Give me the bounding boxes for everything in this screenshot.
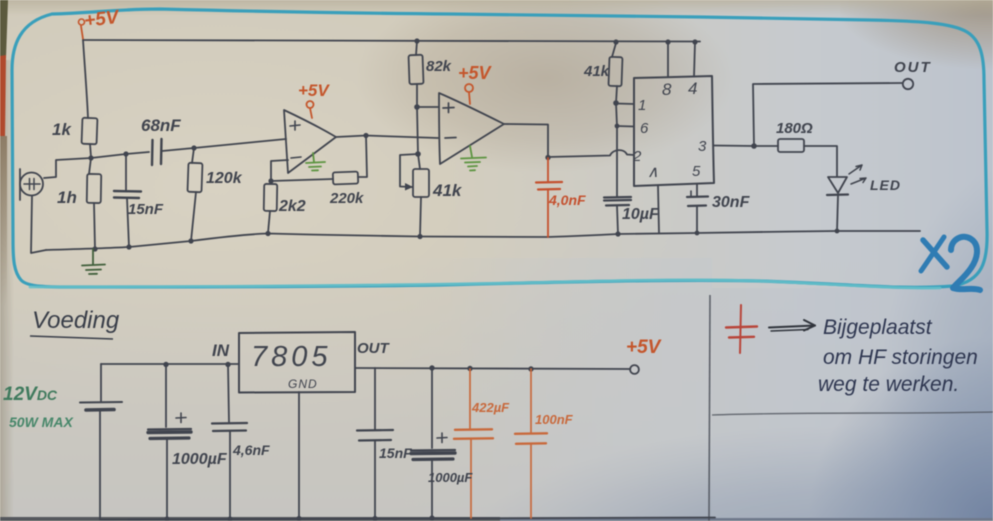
junction dot [265, 231, 270, 236]
+5V psu terminal circle [630, 365, 639, 374]
capacitor C11 100nF (orange) riser [530, 369, 532, 433]
ground symbol GND1 [82, 249, 105, 274]
svg-text:30nF: 30nF [712, 194, 751, 211]
wire C6 riser [165, 364, 167, 427]
wire + node to U2 [417, 106, 438, 108]
wire R2 to ground rail [94, 203, 95, 249]
wire node C to op-amp U1 + input [194, 139, 286, 148]
svg-text:+5V: +5V [83, 7, 121, 32]
svg-text:68nF: 68nF [141, 116, 181, 135]
svg-text:OUT: OUT [357, 340, 391, 357]
resistor R4 2k2 body [264, 184, 277, 211]
wire mic down to ground rail [31, 196, 46, 253]
junction dot U2 + node [414, 104, 420, 110]
svg-text:1h: 1h [57, 188, 77, 207]
ground rail (bottom of top circuit) [46, 231, 920, 250]
wire C2 to node C [162, 148, 194, 151]
svg-text:4: 4 [688, 79, 697, 98]
svg-text:220k: 220k [329, 190, 364, 207]
junction dot [615, 231, 620, 236]
svg-text:8: 8 [662, 80, 672, 99]
junction dot [695, 231, 700, 236]
regulator U4 7805 body [239, 332, 355, 393]
capacitor C10 422uF (orange) riser [469, 369, 471, 429]
R7 wiper arrowhead [405, 183, 413, 191]
capacitor C9 1000uF plates (electrolytic) [411, 449, 455, 452]
LED D1 cathode bar [827, 193, 848, 196]
blue marker border around top schematic [12, 9, 987, 287]
wire C1 to ground rail [127, 198, 129, 247]
IC pin5 riser down to C5 [696, 185, 698, 197]
capacitor C8 15nF plates [357, 429, 393, 432]
top circuit labels [52, 7, 932, 223]
node A junction [88, 155, 93, 160]
resistor R3 120k body [187, 163, 202, 192]
wire pot node into pot R7 [418, 154, 420, 169]
wire pin1 node down to pin6 node [616, 103, 617, 126]
svg-text:OUT: OUT [894, 59, 932, 76]
wire battery top [100, 364, 102, 401]
psu top rail battery to 7805 IN [101, 363, 239, 365]
junction dot pin8 on rail [665, 39, 670, 44]
svg-text:1: 1 [638, 97, 646, 114]
U2 - input mark [445, 137, 456, 140]
junction dot [126, 244, 131, 249]
junction dot U1 output [363, 133, 368, 138]
wire C4 to ground rail [617, 206, 618, 234]
capacitor C6 1000uF plates (electrolytic) [148, 428, 191, 431]
capacitor C10 422uF plates [455, 428, 492, 431]
svg-text:41k: 41k [432, 181, 463, 200]
svg-text:82k: 82k [426, 58, 452, 75]
wire U2 output to IC pin2 with hop over vertical [548, 150, 634, 157]
wire + node down crossing to pot node [417, 107, 418, 154]
psu out rail 7805 to +5V terminal [355, 368, 630, 369]
potentiometer R7 41k body [413, 169, 429, 197]
capacitor C6 1000uF plus sign [176, 413, 186, 423]
svg-text:41k: 41k [583, 63, 610, 80]
junction dots psu ground rail [164, 516, 169, 521]
photo edge: brown fade left [0, 136, 7, 306]
svg-text:+5V: +5V [458, 63, 493, 83]
note capacitor symbol (red) [726, 305, 757, 353]
wire C7 to psu ground rail [229, 431, 231, 519]
wire R1 to node A [90, 144, 91, 157]
svg-text:LED: LED [870, 177, 901, 193]
psu ground rail [100, 518, 715, 520]
junction dot [835, 229, 840, 234]
junction dot [92, 246, 97, 251]
wire R6 down to U2 + node [416, 84, 418, 107]
svg-text:422µF: 422µF [471, 400, 510, 415]
wire LED to ground rail [837, 196, 838, 231]
op-amp U2 triangle [439, 93, 504, 164]
wire C5 to ground rail [696, 206, 698, 233]
junction dot output / C3 tap [545, 155, 550, 160]
svg-text:∧: ∧ [647, 164, 659, 181]
svg-text:2k2: 2k2 [278, 198, 306, 215]
wire C6 to psu ground rail [166, 440, 168, 519]
wire R9 to LED [804, 146, 837, 176]
LED D1 triangle [828, 177, 847, 193]
capacitor C7 4,6nF plates [212, 422, 247, 425]
svg-text:12VDC: 12VDC [3, 384, 58, 405]
svg-text:weg te werken.: weg te werken. [818, 373, 959, 396]
wire 7805 GND down [298, 392, 300, 519]
svg-text:GND: GND [288, 377, 318, 391]
wire node C down to R3 [192, 148, 194, 163]
U2 output wire [504, 124, 548, 157]
wire C9 riser [431, 368, 433, 448]
wire U1 -input feedback left [271, 160, 288, 180]
wire pin1 stub [616, 103, 634, 106]
svg-text:120k: 120k [206, 170, 243, 187]
svg-text:+5V: +5V [626, 337, 662, 358]
svg-text:10µF: 10µF [622, 206, 660, 223]
LED arrows [849, 165, 862, 174]
+5V terminal circle left (orange) [79, 19, 85, 25]
wire rail down to R1 [83, 40, 88, 118]
IC pin7 riser down [658, 186, 659, 234]
wire node A to mic [44, 158, 91, 178]
+5V supply rail (top) [83, 40, 700, 42]
R7 wiper loop wire [400, 154, 418, 187]
svg-text:15nF: 15nF [379, 445, 412, 461]
svg-text:4,0nF: 4,0nF [548, 192, 586, 208]
section divider vertical line [709, 295, 710, 521]
capacitor C11 100nF plates [515, 432, 547, 435]
section divider horizontal line [712, 412, 993, 415]
wire C11 to psu ground rail [530, 444, 532, 518]
junction dot [613, 39, 618, 44]
+5V stub U2 (orange) [469, 93, 470, 105]
microphone M1 [20, 173, 43, 196]
capacitor C4 10uF plates [604, 196, 631, 199]
junction dot C9 tap [429, 365, 434, 370]
X2 marking [921, 237, 980, 290]
junction dot IN node [225, 362, 230, 367]
wire pot R7 to ground rail [420, 197, 421, 237]
psu labels [3, 307, 662, 485]
svg-text:7805: 7805 [251, 341, 332, 373]
U2 + input mark [443, 103, 454, 113]
U1 - input mark [291, 157, 301, 158]
wire C9 to psu ground rail [431, 461, 433, 519]
wire C10 to psu ground rail [470, 439, 472, 518]
junction dot [188, 238, 193, 243]
node C junction [191, 145, 196, 150]
wire node B down to C1 [125, 154, 127, 190]
svg-text:1000µF: 1000µF [428, 470, 473, 485]
svg-text:Bijgeplaatst: Bijgeplaatst [823, 316, 933, 339]
shadow band top-center [355, 0, 735, 173]
wire node B to C2 [126, 152, 149, 154]
U1 + input mark [290, 121, 300, 130]
svg-text:IN: IN [212, 341, 230, 360]
wire node D up and right to OUT [753, 83, 902, 146]
IC pin8 riser [667, 42, 669, 77]
svg-text:15nF: 15nF [128, 201, 164, 218]
junction dot feedback node [268, 178, 273, 183]
junction dot C10 tap [467, 366, 472, 371]
wire node D to R9 [754, 145, 778, 147]
ground symbol U1 (green) [306, 153, 325, 171]
note text (cursive) [818, 316, 978, 396]
photo edge: red-orange strip left [0, 55, 6, 140]
wire R8 down to pin1 node [616, 86, 617, 103]
wire top rail down to R8 41k [612, 43, 616, 57]
svg-text:3: 3 [698, 138, 707, 155]
+5V terminal circle U2 [465, 84, 473, 92]
OUT terminal circle [903, 79, 913, 89]
capacitor C1 15nF plates [114, 190, 141, 193]
wire C8 riser [374, 368, 376, 429]
battery B1 plate long [80, 401, 122, 404]
svg-text:+5V: +5V [298, 81, 330, 100]
wire pin6 stub [617, 125, 634, 128]
junction dot pot node [415, 151, 421, 157]
capacitor C3 4,0nF (red) [536, 158, 562, 237]
wire R5 to output node [358, 136, 367, 177]
+5V terminal circle U1 [307, 101, 314, 108]
svg-text:1k: 1k [52, 120, 72, 139]
wire node A to node B [91, 154, 126, 158]
IC U3 555 body [634, 76, 714, 186]
resistor R6 82k body [409, 55, 424, 84]
svg-text:4,6nF: 4,6nF [232, 442, 270, 458]
junction dot pin1 node [613, 100, 619, 106]
svg-text:5: 5 [692, 163, 701, 180]
svg-text:50W MAX: 50W MAX [9, 414, 74, 430]
node B junction [123, 151, 128, 156]
junction dot C11 tap [528, 366, 533, 371]
resistor R8 41k body [608, 57, 622, 86]
ground symbol U2 (green) [461, 146, 486, 171]
IC pin3 wire to node D [714, 145, 754, 148]
capacitor C2 68nF plates [151, 140, 154, 165]
resistor R2 1h body [87, 174, 102, 203]
note arrow [769, 320, 815, 331]
wire C8 to psu ground rail [374, 441, 376, 519]
svg-text:Voeding: Voeding [32, 307, 120, 334]
svg-text:100nF: 100nF [535, 412, 574, 427]
wire pin6 node down to C4 [616, 126, 618, 196]
U1 output wire to U2 -input [336, 136, 438, 139]
IC pin4 riser [694, 42, 695, 77]
photo edge: bottom dark strip [0, 517, 500, 521]
photo edge: olive strip top-left [0, 0, 8, 60]
wire C7 riser [228, 364, 229, 422]
Voeding underline [30, 336, 113, 339]
junction dot pin4 on rail [692, 39, 697, 44]
capacitor C5 30nF plates [690, 191, 692, 196]
svg-text:180Ω: 180Ω [776, 120, 813, 137]
wire R3 to ground rail [191, 192, 196, 241]
junction dot [414, 38, 419, 43]
blue border bottom lighter overdraw [30, 280, 940, 288]
svg-text:6: 6 [640, 120, 649, 137]
svg-text:2: 2 [632, 148, 642, 165]
capacitor C9 1000uF plus sign [437, 433, 447, 443]
wire top rail down to R6 82k [416, 41, 417, 55]
node D junction [751, 143, 757, 149]
junction dot C6 tap [163, 362, 168, 367]
svg-text:om HF storingen: om HF storingen [823, 346, 978, 369]
battery B1 plate short thick [86, 408, 114, 412]
+5V stub U1 (orange) [310, 108, 312, 118]
orange decoupling caps psu [454, 366, 547, 518]
junction dot [417, 234, 422, 239]
resistor R5 220k body [333, 172, 358, 185]
wire +5V terminal to rail (red stub) [81, 26, 83, 39]
wire battery to psu ground rail [99, 410, 101, 519]
wire R4 to ground rail [268, 211, 270, 233]
svg-text:1000µF: 1000µF [172, 451, 228, 468]
wire feedback node to R5 [271, 179, 333, 181]
resistor R9 180ohm body [778, 139, 804, 152]
resistor R1 1k body [82, 118, 98, 145]
wire node A down to R2 [89, 158, 91, 174]
op-amp U1 triangle [284, 110, 336, 173]
junction dot pin6 node [615, 124, 620, 129]
